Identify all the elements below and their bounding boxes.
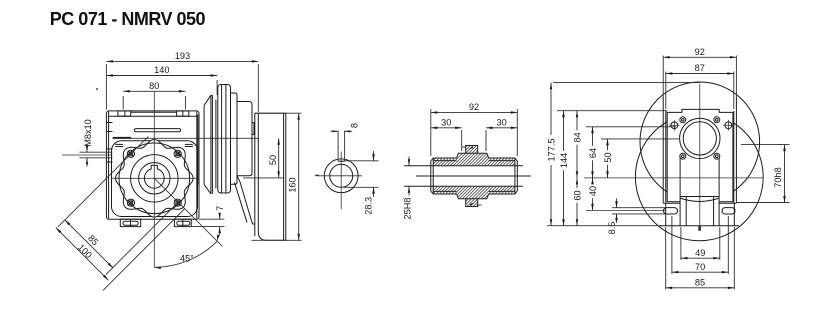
keyway slot lines (337, 131, 339, 162)
svg-text:70h8: 70h8 (773, 167, 783, 187)
dim 80 (122, 96, 124, 110)
svg-text:49: 49 (695, 248, 705, 258)
dim 70h8 (741, 144, 790, 146)
svg-text:25H8: 25H8 (403, 198, 413, 220)
ext top of unit (553, 82, 700, 84)
left edge boss upper (106, 122, 112, 124)
lower housing circle (635, 113, 763, 241)
dim 49 (681, 257, 720, 259)
svg-text:45°: 45° (180, 253, 194, 263)
plate top mid edge (131, 111, 177, 113)
ext lines feet dims (665, 227, 667, 290)
dim 84 (576, 111, 578, 131)
input flange screw holes (680, 117, 686, 123)
cavity bottom (680, 196, 719, 198)
flange plate right view (667, 109, 733, 202)
hub circles (131, 155, 178, 202)
centerline horizontal output (112, 177, 197, 179)
dim 100 diagonal (56, 228, 109, 281)
svg-text:64: 64 (588, 148, 598, 158)
svg-text:M8x10: M8x10 (83, 119, 93, 147)
svg-text:87: 87 (695, 63, 705, 73)
dim 8 keyway (331, 130, 339, 132)
input axis line (113, 137, 282, 139)
dim 92 shaft (430, 109, 432, 156)
feet right view (663, 202, 680, 204)
dim 28.3 (345, 160, 379, 162)
svg-text:30: 30 (441, 118, 451, 128)
45 degree angle arc (154, 241, 217, 267)
svg-text:84: 84 (572, 132, 582, 142)
dim 7 (199, 218, 225, 220)
pc block wedge (237, 176, 240, 182)
dim 25H8 (408, 157, 410, 166)
dim 85 diagonal (65, 220, 113, 268)
svg-text:PC 071 - NMRV 050: PC 071 - NMRV 050 (50, 9, 206, 29)
flange circle (119, 143, 190, 214)
svg-text:140: 140 (154, 65, 169, 75)
dim 64 (592, 127, 594, 146)
diagonal extension lower mid (106, 203, 178, 275)
dim 144 (563, 111, 565, 151)
upper circle bottom arc (680, 198, 719, 201)
ext foot slot axis (586, 209, 666, 211)
neck walls (679, 158, 681, 226)
dim 140 (216, 80, 218, 95)
inner face rounded square (112, 141, 198, 217)
ext input axis (601, 138, 680, 140)
svg-text:50: 50 (268, 155, 278, 165)
oil slot (135, 129, 181, 132)
bottom feet (120, 219, 140, 226)
input flange circles (680, 118, 720, 158)
collar ring (231, 93, 238, 184)
ext base (547, 225, 662, 227)
diagonal leader 45deg upper (58, 136, 148, 226)
dim 50 right view (607, 139, 609, 150)
svg-text:30: 30 (496, 118, 506, 128)
shaft axis (416, 175, 531, 177)
svg-text:28.3: 28.3 (364, 197, 374, 215)
dim 30 right (485, 130, 487, 151)
upper housing circle (640, 82, 760, 202)
svg-text:50: 50 (603, 152, 613, 162)
keyway boss top (466, 146, 478, 154)
right view vertical centerline (699, 84, 701, 231)
ext flange top (557, 110, 667, 112)
shaft chamfer lines (433, 160, 456, 162)
svg-text:177.5: 177.5 (546, 139, 556, 162)
dim 60 (576, 178, 578, 188)
svg-text:85: 85 (695, 278, 705, 288)
dim 193 (105, 64, 107, 110)
svg-text:8.5: 8.5 (607, 222, 617, 235)
bell neck (197, 115, 199, 185)
keyway boss bottom (466, 199, 478, 207)
dim 177.5 (550, 83, 552, 135)
base line (660, 225, 739, 227)
svg-text:8: 8 (350, 123, 360, 128)
svg-text:92: 92 (469, 102, 479, 112)
feet slots (123, 221, 138, 225)
svg-text:80: 80 (149, 81, 159, 91)
svg-text:160: 160 (288, 177, 298, 192)
dim 160 (255, 112, 302, 114)
svg-text:60: 60 (572, 190, 582, 200)
cylinder notch (252, 123, 254, 135)
dim M8x10 hole (80, 151, 113, 153)
top bosses (118, 111, 131, 116)
dim 70 (672, 271, 728, 273)
dim 92 right view (662, 56, 664, 100)
svg-text:144: 144 (559, 153, 569, 168)
diagonal extension lower outer (103, 209, 185, 291)
foot slots right view (664, 208, 678, 214)
shaft circle centerlines (316, 175, 362, 177)
svg-text:193: 193 (175, 51, 190, 61)
left edge boss lower (106, 148, 112, 150)
keyway small arrows (469, 146, 474, 149)
svg-text:40: 40 (588, 186, 598, 196)
ext hole axis 64 (586, 126, 676, 128)
right view body (662, 97, 664, 203)
gearbox front flange plate (106, 111, 199, 219)
svg-text:70: 70 (695, 262, 705, 272)
right view horizontal axis (584, 177, 763, 179)
dim 40 (592, 178, 594, 184)
shaft section circle (324, 159, 358, 193)
output bore with keyway (144, 165, 164, 188)
center tick below base (698, 226, 701, 231)
dim 87 (665, 72, 667, 110)
dim 8.5 (616, 199, 618, 208)
pc-071 block (258, 113, 286, 240)
plate bottom edge (667, 201, 680, 203)
bore lines (404, 165, 523, 167)
ext slot lines 8.5 (612, 207, 666, 209)
stray dash right of left view (315, 174, 319, 176)
centerline vertical (153, 92, 155, 268)
dim 85 bottom (666, 287, 735, 289)
flange side holes crossed (671, 122, 678, 129)
svg-text:92: 92 (695, 47, 705, 57)
motor flange disc (218, 85, 231, 194)
svg-text:7: 7 (215, 206, 225, 211)
hollow shaft outline (431, 153, 518, 161)
flange cylinder (237, 102, 252, 176)
diagonal ray 45 (154, 178, 222, 246)
stray dot (96, 88, 98, 90)
dim 50 side (243, 177, 284, 179)
flange screws M8 (127, 150, 134, 157)
internal step lines left (115, 143, 123, 145)
dim 30 left (461, 130, 463, 151)
rosette lobed flange (116, 140, 194, 218)
internal step lines right (185, 143, 193, 145)
